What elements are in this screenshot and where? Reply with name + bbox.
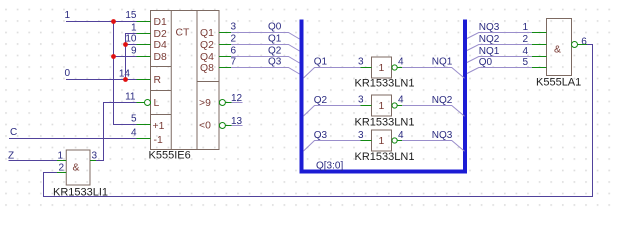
gate D3 K555LA1 body — [547, 19, 572, 76]
gate D2 input pin stubs — [57, 161, 96, 173]
net Q2 tap label — [314, 95, 328, 106]
svg-text:NQ3: NQ3 — [432, 130, 453, 141]
wire <0 stub pin13 — [232, 125, 243, 127]
svg-text:K555IE6: K555IE6 — [149, 150, 191, 162]
svg-text:Q1: Q1 — [314, 57, 328, 68]
svg-text:1: 1 — [65, 10, 71, 21]
net Q3 label — [268, 57, 282, 68]
junction net0/R — [123, 77, 128, 82]
svg-text:9: 9 — [131, 46, 137, 57]
net Q2 label — [268, 46, 282, 57]
counter U1 input pin stubs (green) — [137, 22, 151, 139]
net NQ2 right label — [479, 34, 500, 45]
gate D3 output bubble — [572, 42, 578, 48]
svg-text:4: 4 — [398, 95, 404, 106]
svg-text:KR1533LN1: KR1533LN1 — [355, 151, 415, 163]
wire net 0 vertical to D2 D4 — [126, 34, 137, 80]
wire bus tap Q0 to gate D3 pin5 — [467, 68, 532, 74]
svg-text:CT: CT — [176, 28, 191, 39]
svg-text:NQ3: NQ3 — [479, 22, 500, 33]
wire NQ1 from inverter D4 to bus — [402, 68, 465, 79]
svg-text:6: 6 — [231, 46, 237, 57]
svg-text:3: 3 — [358, 57, 364, 68]
wire bus tap NQ2 to gate D3 pin2 — [467, 45, 532, 51]
net Q0 label — [268, 22, 282, 33]
counter U1 pin <0 inversion bubble — [219, 123, 225, 129]
svg-text:1: 1 — [379, 136, 385, 147]
inverter D4 1 symbol — [379, 63, 385, 74]
svg-text:1: 1 — [379, 63, 385, 74]
gate D3 input pin stubs — [532, 33, 547, 68]
svg-text:1: 1 — [131, 23, 137, 34]
gate D3 output pin number 6 — [581, 37, 587, 48]
inverter D5 KR1533LN1 body — [372, 95, 392, 116]
bus name label Q[3:0] — [316, 161, 343, 172]
wire >9 stub pin12 — [232, 102, 243, 104]
svg-text:11: 11 — [125, 92, 136, 103]
svg-text:D2: D2 — [154, 29, 168, 40]
counter U1 input pin numbers 15 1 10 9 14 11 5 4 — [119, 10, 137, 139]
node Z label — [8, 151, 14, 162]
svg-text:3: 3 — [358, 95, 364, 106]
inverter D5 output bubble — [392, 103, 397, 108]
wire bus tap NQ1 to gate D3 pin4 — [467, 57, 532, 63]
svg-text:Q8: Q8 — [200, 63, 214, 74]
svg-text:2: 2 — [231, 34, 237, 45]
svg-text:2: 2 — [58, 163, 64, 174]
gate D3 output stub — [578, 44, 588, 46]
net constant 1 label — [65, 10, 71, 21]
inverter D6 output bubble — [392, 138, 397, 143]
net Q1 label — [268, 34, 282, 45]
net constant 0 label — [65, 68, 71, 79]
net NQ1 label — [432, 57, 453, 68]
inverter D6 output stub — [397, 140, 402, 142]
svg-text:Q2: Q2 — [200, 40, 214, 51]
inverter D6 pin numbers 3 4 — [358, 130, 404, 141]
inverter D4 output stub — [397, 67, 402, 69]
svg-text:R: R — [154, 75, 162, 86]
gate D2 KR1533LI1 body — [66, 150, 90, 185]
counter U1 output labels Q1 Q2 Q4 Q8 >9 <0 — [199, 28, 214, 132]
svg-text:NQ2: NQ2 — [479, 34, 500, 45]
wire NQ3 from inverter D6 to bus — [402, 141, 465, 152]
svg-text:3: 3 — [231, 22, 237, 33]
counter U1 CT label — [176, 28, 191, 39]
svg-text:4: 4 — [131, 128, 137, 139]
wire bus tap Q1 to inverter D4 — [304, 68, 361, 79]
wire net 0 horizontal to R — [66, 79, 137, 81]
wire NQ2 from inverter D5 to bus — [402, 106, 465, 117]
bus Q[3:0] — [302, 20, 466, 172]
inverter D6 name label KR1533LN1 — [355, 151, 415, 163]
svg-text:C: C — [10, 127, 17, 138]
net NQ2 label — [432, 95, 453, 106]
svg-text:3: 3 — [92, 151, 98, 162]
svg-text:Q[3:0]: Q[3:0] — [316, 161, 343, 172]
svg-text:Q1: Q1 — [200, 28, 214, 39]
wire C to -1 — [9, 138, 137, 140]
wire net 0 branch to D4 — [126, 44, 137, 46]
gate D3 name label K555LA1 — [536, 76, 581, 88]
svg-text:Q4: Q4 — [200, 52, 214, 63]
wire bus tap Q3 to inverter D6 — [304, 141, 361, 152]
inverter D6 KR1533LN1 body — [372, 130, 392, 151]
svg-text:D1: D1 — [154, 17, 168, 28]
gate D2 pin numbers 1 2 3 — [57, 151, 97, 174]
inverter D5 name label KR1533LN1 — [355, 116, 415, 128]
svg-text:4: 4 — [522, 46, 528, 57]
svg-text:1: 1 — [522, 22, 528, 33]
svg-text:6: 6 — [581, 37, 587, 48]
gate D3 input pin numbers 1 2 4 5 — [522, 22, 528, 68]
svg-text:5: 5 — [522, 57, 528, 68]
wire net 1 branch to D8 — [114, 56, 137, 58]
junction net1/D1 — [111, 19, 116, 24]
svg-text:KR1533LN1: KR1533LN1 — [355, 78, 415, 90]
inverter D5 input stub — [361, 105, 372, 107]
wire feedback from gate D3 output to gate D2 pin2 — [44, 45, 593, 197]
inverter D4 KR1533LN1 body — [372, 57, 392, 78]
counter U1 input labels D1 D2 D4 D8 R L +1 -1 — [153, 17, 168, 146]
svg-text:NQ1: NQ1 — [479, 46, 500, 57]
wire gate D2 output to L input — [96, 103, 137, 161]
inverter D4 name label KR1533LN1 — [355, 78, 415, 90]
counter U1 name label K555IE6 — [149, 150, 191, 162]
gate D2 & symbol — [73, 163, 80, 174]
inverter D5 pin numbers 3 4 — [358, 95, 404, 106]
svg-text:NQ2: NQ2 — [432, 95, 453, 106]
gate D3 & symbol — [554, 45, 561, 56]
svg-text:NQ1: NQ1 — [432, 57, 453, 68]
wire net 1 vertical to +1 — [114, 22, 137, 125]
svg-text:Q2: Q2 — [314, 95, 328, 106]
svg-text:7: 7 — [231, 57, 237, 68]
svg-text:4: 4 — [398, 57, 404, 68]
svg-text:K555LA1: K555LA1 — [536, 76, 581, 88]
inverter D4 input stub — [361, 67, 372, 69]
node C label — [10, 127, 17, 138]
net Q1 tap label — [314, 57, 328, 68]
svg-text:<0: <0 — [199, 121, 211, 132]
svg-text:&: & — [554, 45, 561, 56]
inverter D6 input stub — [361, 140, 372, 142]
svg-text:Q3: Q3 — [314, 130, 328, 141]
svg-text:&: & — [73, 163, 80, 174]
svg-text:4: 4 — [398, 130, 404, 141]
inverter D4 pin numbers 3 4 — [358, 57, 404, 68]
counter U1 output pin numbers 3 2 6 7 12 13 — [231, 22, 243, 128]
inverter D5 1 symbol — [379, 101, 385, 112]
svg-text:1: 1 — [379, 101, 385, 112]
net NQ1 right label — [479, 46, 500, 57]
counter U1 pin >9 inversion bubble — [219, 100, 225, 106]
svg-text:0: 0 — [65, 68, 71, 79]
svg-text:Q1: Q1 — [268, 34, 282, 45]
wire net 1 horizontal to D1 — [66, 21, 137, 23]
svg-text:15: 15 — [125, 10, 137, 21]
svg-text:>9: >9 — [199, 98, 211, 109]
junction net1/D8 — [111, 54, 116, 59]
inverter D5 output stub — [397, 105, 402, 107]
svg-text:5: 5 — [131, 114, 137, 125]
svg-text:1: 1 — [57, 151, 63, 162]
svg-text:+1: +1 — [153, 121, 165, 132]
net Q0 right label — [479, 57, 493, 68]
svg-text:Q0: Q0 — [479, 57, 493, 68]
svg-text:D8: D8 — [154, 52, 168, 63]
junction net0/D4 — [123, 42, 128, 47]
wires Q0 Q1 Q2 Q3 from counter to bus — [231, 33, 300, 75]
wire bus tap NQ3 to gate D3 pin1 — [467, 33, 532, 39]
gate D2 name label KR1533LI1 — [53, 186, 108, 198]
svg-text:Z: Z — [8, 151, 14, 162]
net NQ3 right label — [479, 22, 500, 33]
svg-text:D4: D4 — [154, 40, 168, 51]
svg-text:-1: -1 — [154, 135, 163, 146]
svg-text:KR1533LN1: KR1533LN1 — [355, 116, 415, 128]
svg-text:L: L — [154, 98, 160, 109]
counter U1 pin L inversion bubble — [145, 100, 151, 106]
counter U1 K555IE6 body — [151, 11, 220, 150]
inverter D6 1 symbol — [379, 136, 385, 147]
wire bus tap Q2 to inverter D5 — [304, 106, 361, 117]
svg-text:Q3: Q3 — [268, 57, 282, 68]
wire Z to gate D2 pin1 — [9, 160, 58, 162]
net Q3 tap label — [314, 130, 328, 141]
counter U1 output pin stubs (green) — [219, 33, 232, 126]
svg-text:Q2: Q2 — [268, 46, 282, 57]
svg-text:Q0: Q0 — [268, 22, 282, 33]
inverter D4 output bubble — [392, 65, 397, 70]
net NQ3 label — [432, 130, 453, 141]
svg-text:3: 3 — [358, 130, 364, 141]
svg-text:2: 2 — [522, 34, 528, 45]
